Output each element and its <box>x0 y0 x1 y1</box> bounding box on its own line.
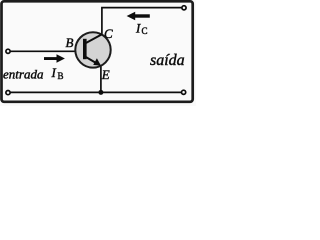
arrow IC (bold left arrow) <box>135 14 150 17</box>
transistor Q1 base bar <box>83 39 87 59</box>
svg-text:E: E <box>101 67 110 82</box>
svg-text:entrada: entrada <box>3 67 44 82</box>
svg-text:I: I <box>135 21 141 36</box>
svg-text:C: C <box>104 26 113 41</box>
transistor Q1 emitter arrowhead <box>93 58 101 66</box>
border frame <box>2 1 193 102</box>
svg-text:B: B <box>58 71 64 81</box>
arrow IB (bold right arrow) <box>44 57 57 60</box>
node: input terminal (top-left open circle) <box>6 49 10 53</box>
node: bottom-left terminal (open circle) <box>6 91 10 95</box>
svg-text:saída: saída <box>150 52 185 69</box>
node: output terminal top-right (open circle) <box>182 6 186 10</box>
wire: collector riser <box>101 8 103 35</box>
svg-text:I: I <box>51 65 57 80</box>
node: bottom-right terminal (open circle) <box>182 90 186 94</box>
svg-text:C: C <box>142 26 148 36</box>
node: junction dot at emitter/bottom wire <box>98 90 103 95</box>
wire: top horizontal to output terminal <box>101 7 182 9</box>
transistor Q1 circle body <box>75 32 110 67</box>
transistor Q1 collector diagonal <box>85 34 102 43</box>
wire: base lead from input terminal to transistor <box>11 50 84 52</box>
wire: emitter lead down <box>100 65 102 92</box>
svg-text:B: B <box>66 35 74 50</box>
transistor Q1 emitter diagonal <box>85 57 97 64</box>
wire: bottom horizontal <box>11 91 182 93</box>
